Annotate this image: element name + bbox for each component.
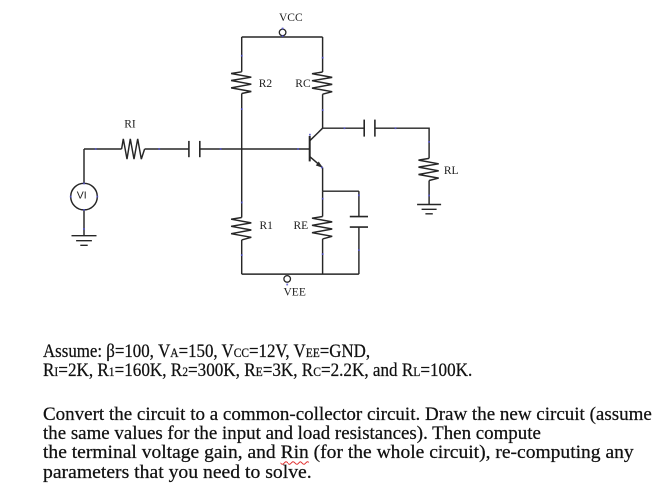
wire VI top lead — [83, 149, 85, 183]
wire RC bottom to collector node — [322, 94, 324, 128]
voltage source VI — [71, 183, 98, 210]
wire input horizontal to RI — [84, 148, 122, 150]
wire emitter junction to bypass cap branch — [323, 190, 359, 192]
wire top rail VCC — [242, 36, 323, 38]
wire RC upper lead — [322, 37, 324, 72]
VCC terminal circle — [279, 29, 286, 36]
wire emitter junction to RE — [322, 191, 324, 216]
capacitor output coupling right plate — [374, 120, 376, 137]
capacitor output coupling left plate — [363, 120, 365, 137]
wire RE bottom lead — [322, 239, 324, 274]
transistor Q1 emitter diagonal — [310, 157, 323, 168]
capacitor input coupling left plate — [188, 141, 190, 157]
svg-text:RE: RE — [294, 220, 309, 232]
svg-text:VI: VI — [77, 189, 87, 201]
resistor RL — [419, 158, 439, 180]
wire R1 bottom lead — [241, 240, 243, 274]
ground under RL — [417, 205, 441, 214]
VEE terminal circle — [284, 276, 291, 283]
wire collector to output cap — [323, 127, 365, 129]
wire emitter to junction — [322, 168, 324, 192]
resistor R2 — [231, 72, 251, 94]
transistor Q1 collector diagonal — [310, 128, 323, 141]
resistor RI — [122, 139, 145, 159]
wire base node to R1 top — [241, 149, 243, 218]
pin endpoint marks (blue) — [70, 28, 430, 286]
text block assumptions — [43, 342, 520, 380]
resistor RC — [312, 72, 332, 94]
text block problem statement — [43, 405, 652, 482]
svg-text:R2: R2 — [259, 78, 273, 90]
wire RL bottom lead — [428, 181, 430, 205]
wire R2 upper lead — [241, 37, 243, 72]
ground under VI — [72, 236, 97, 246]
wire output cap to RL corner — [375, 128, 429, 158]
wire VI bottom lead — [83, 210, 85, 236]
wire bypass cap upper lead — [358, 191, 360, 216]
wire input cap to base — [200, 148, 310, 150]
svg-text:VEE: VEE — [284, 287, 306, 299]
svg-text:R1: R1 — [260, 220, 274, 232]
svg-text:VCC: VCC — [279, 12, 303, 24]
transistor Q1 emitter arrowhead — [316, 162, 323, 168]
wire bottom rail VEE — [242, 273, 359, 275]
svg-text:RC: RC — [295, 78, 311, 90]
svg-text:RL: RL — [444, 165, 459, 177]
capacitor input coupling right plate — [199, 141, 201, 157]
wire bypass cap lower lead — [358, 227, 360, 274]
capacitor bypass top plate — [350, 216, 368, 218]
resistor R1 — [231, 218, 251, 240]
resistor RE — [312, 217, 332, 239]
capacitor bypass bottom plate — [350, 226, 368, 228]
svg-text:RI: RI — [124, 118, 136, 130]
transistor Q1 base bar — [309, 136, 311, 161]
wire R2 bottom to base node — [241, 94, 243, 150]
wire RI to input cap — [145, 148, 189, 150]
